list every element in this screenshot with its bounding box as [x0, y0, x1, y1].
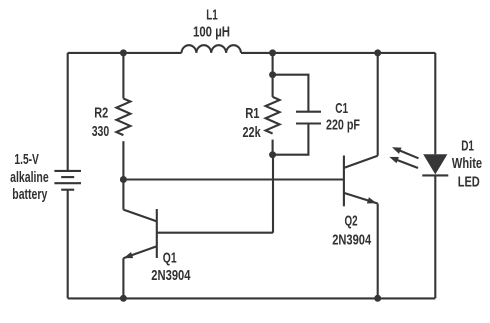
- wire C1 bottom branch: [273, 124, 309, 155]
- svg-text:L1: L1: [206, 7, 218, 24]
- wire LED cathode to bottom rail: [434, 175, 436, 298]
- node junction dot top rail / R2: [120, 49, 127, 56]
- node junction dot bottom rail / Q1 emitter: [120, 295, 127, 302]
- svg-text:22k: 22k: [243, 124, 262, 141]
- svg-text:100 µH: 100 µH: [193, 23, 230, 40]
- transistor Q2 emitter lead: [344, 193, 378, 204]
- svg-text:1.5-V: 1.5-V: [14, 151, 39, 168]
- wire R1 bottom lead: [272, 140, 274, 155]
- svg-text:D1: D1: [461, 137, 474, 154]
- LED light arrow upper shaft: [396, 149, 419, 158]
- transistor Q1 emitter arrowhead: [124, 252, 134, 258]
- wire R2 top lead: [122, 53, 124, 99]
- wire left rail (battery to bottom rail): [67, 190, 69, 299]
- transistor Q2 emitter arrowhead: [367, 197, 377, 203]
- wire right rail (top rail to LED anode): [434, 53, 436, 154]
- svg-text:330: 330: [92, 123, 110, 140]
- node junction dot top rail / R1-C1: [269, 49, 276, 56]
- svg-text:White: White: [452, 155, 482, 172]
- LED light arrow lower head: [389, 157, 399, 163]
- node junction dot R1/C1 bottom node: [269, 151, 276, 158]
- wire node A to Q1 collector: [122, 180, 124, 210]
- transistor Q1 emitter lead: [123, 246, 156, 258]
- node A junction dot (R2 / Q1 collector / Q2 base): [120, 176, 127, 183]
- transistor Q1 base bar: [156, 209, 158, 258]
- resistor R1: [266, 97, 280, 134]
- wire node A to Q2 base: [123, 178, 344, 180]
- LED light arrow lower shaft: [394, 159, 419, 168]
- node junction dot bottom rail / Q2 emitter: [374, 295, 381, 302]
- wire top rail right: [241, 52, 435, 54]
- capacitor C1: [296, 112, 321, 124]
- wire top rail left: [68, 52, 182, 54]
- LED D1 cathode bar: [422, 174, 448, 176]
- svg-text:2N3904: 2N3904: [151, 267, 191, 284]
- wire R2 bottom lead to node A: [122, 141, 124, 179]
- svg-text:2N3904: 2N3904: [332, 231, 371, 248]
- wire Q1 base lead: [157, 232, 273, 234]
- wire C1 top branch: [273, 75, 309, 112]
- svg-text:battery: battery: [12, 186, 47, 203]
- wire bottom rail: [68, 297, 436, 299]
- wire Q1 emitter to bottom rail: [122, 258, 124, 298]
- node junction dot top rail / Q2 collector: [374, 49, 381, 56]
- node junction dot R1/C1 top node: [269, 71, 276, 78]
- svg-text:220 pF: 220 pF: [326, 116, 360, 133]
- wire Q2 collector to top rail: [377, 53, 379, 156]
- LED D1 triangle: [423, 154, 447, 174]
- transistor Q1 collector lead: [123, 210, 156, 222]
- wire R1 top lead: [272, 75, 274, 97]
- svg-text:Q1: Q1: [163, 249, 177, 266]
- battery B1: [54, 171, 81, 190]
- wire Q1 base to R1/C1 bottom node: [272, 155, 274, 233]
- svg-text:Q2: Q2: [345, 212, 358, 229]
- svg-text:R1: R1: [245, 105, 259, 122]
- svg-text:alkaline: alkaline: [10, 169, 49, 186]
- inductor L1: [182, 45, 241, 53]
- svg-text:C1: C1: [335, 100, 348, 117]
- wire Q2 emitter to bottom rail: [377, 204, 379, 299]
- wire top rail to R1/C1 top node: [272, 53, 274, 75]
- wire left rail (battery to top rail): [67, 53, 69, 171]
- transistor Q2 base bar: [343, 156, 345, 207]
- LED light arrow upper head: [392, 147, 402, 154]
- resistor R2: [116, 99, 130, 136]
- svg-text:R2: R2: [94, 105, 108, 122]
- transistor Q2 collector lead: [344, 156, 378, 168]
- svg-text:LED: LED: [458, 173, 480, 190]
